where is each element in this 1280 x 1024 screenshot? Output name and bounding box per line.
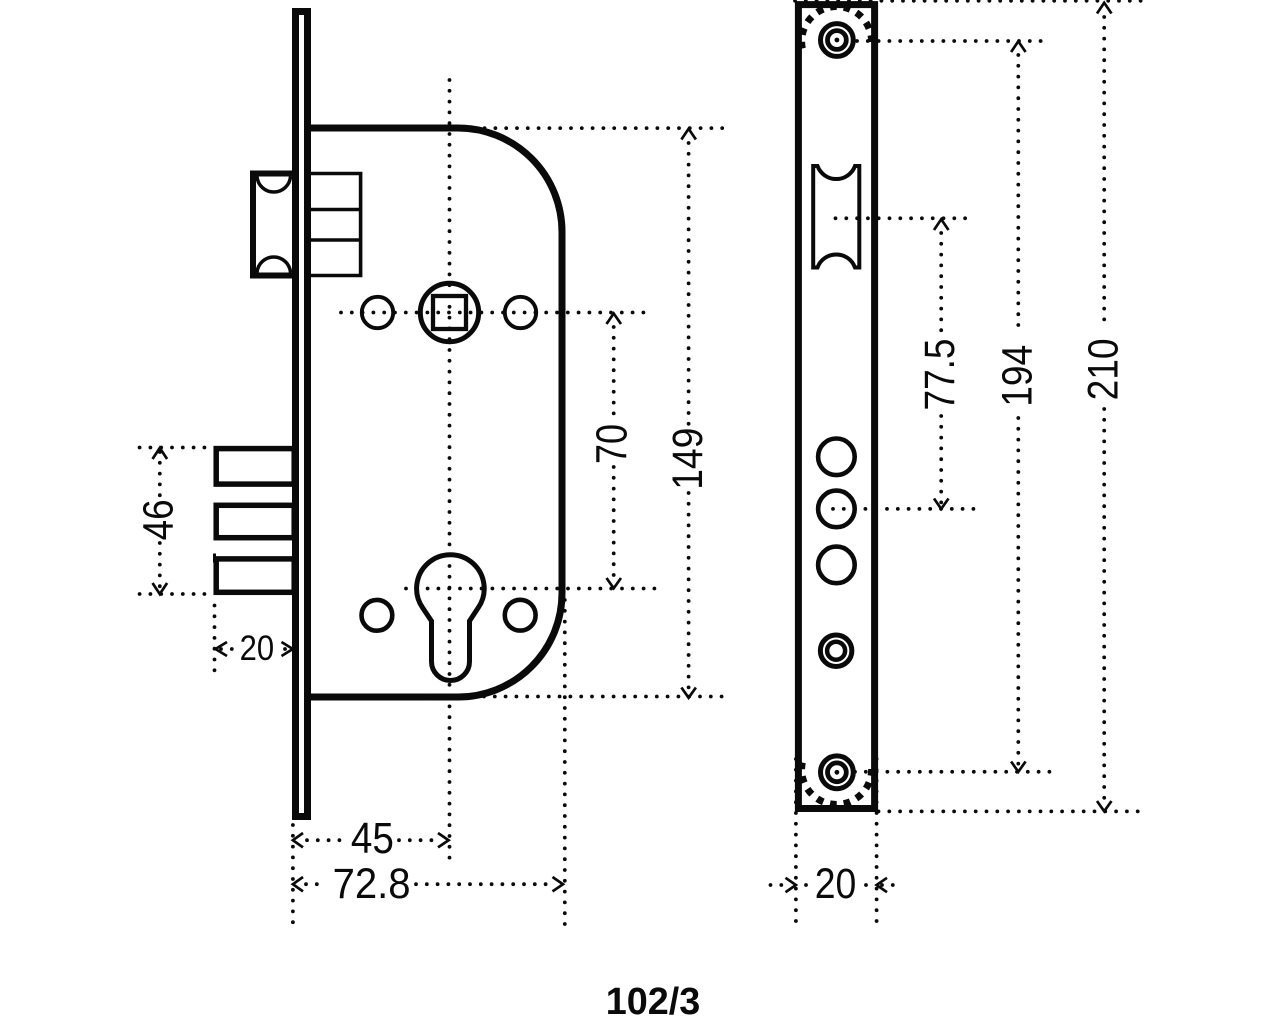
svg-text:20: 20	[815, 861, 857, 908]
dim 72.8 arrows	[293, 877, 563, 891]
screw hole upper-right	[505, 297, 536, 328]
dim 45 extension line	[291, 825, 295, 929]
dim 77.5 line	[939, 233, 943, 333]
dim 70 line	[612, 327, 616, 421]
screw hole lower-left	[362, 600, 393, 631]
dim 77.5 arrows	[934, 219, 949, 509]
deadbolt bar 2	[216, 505, 294, 537]
reference line top screw	[857, 39, 1051, 43]
latch guide box	[311, 174, 361, 276]
svg-text:46: 46	[135, 499, 182, 540]
reference line plate bottom	[879, 810, 1147, 814]
dim 149 bottom reference line	[430, 695, 728, 699]
reference line plate top	[795, 0, 1146, 3]
plate hole 1	[818, 439, 855, 476]
spindle square hole	[433, 296, 466, 329]
dim 20 right extension line left	[794, 759, 798, 924]
dim 72.8 line	[306, 882, 327, 886]
plate hole 3	[818, 547, 855, 584]
top fixing screw	[821, 24, 854, 57]
latch bolt head	[253, 174, 295, 276]
dim 45 arrows	[293, 833, 449, 847]
reference line bottom screw	[855, 770, 1057, 774]
svg-text:194: 194	[995, 345, 1042, 407]
svg-text:102/3: 102/3	[606, 981, 701, 1023]
dim 210 line	[1102, 17, 1106, 330]
latch bolt bevel top arc	[257, 177, 291, 193]
dim 72.8 extension line	[563, 600, 567, 928]
plate hole 2	[818, 491, 855, 528]
dim 149 top reference line	[463, 126, 728, 130]
screw hole upper-left	[362, 297, 393, 328]
deadbolt bar 1	[216, 449, 294, 485]
vertical centerline through spindle	[448, 80, 452, 868]
grub screw hole	[820, 635, 852, 667]
dim 149 arrows	[681, 129, 696, 698]
dim 46 arrows	[153, 448, 168, 594]
svg-text:149: 149	[664, 428, 712, 490]
deadbolt bar 3	[216, 559, 294, 592]
dim 20 left arrows	[216, 642, 293, 656]
faceplate hidden rounded end top (dashed arc)	[802, 7, 872, 49]
dim 70 arrows	[607, 314, 622, 589]
dim 194 line	[1016, 55, 1020, 334]
dim 20 left extension line	[213, 606, 217, 678]
horizontal centerline through spindle	[341, 311, 647, 315]
dim 20 right arrows	[786, 878, 888, 892]
dim 46 bottom reference line	[140, 592, 206, 596]
dim 20 right extension line right	[875, 759, 879, 924]
dim 194 arrows	[1011, 41, 1026, 772]
svg-text:45: 45	[351, 814, 394, 863]
dim 45 line	[307, 838, 345, 842]
reference line hole 2 center	[833, 507, 974, 511]
lock body outline	[311, 128, 562, 697]
screw hole lower-right	[505, 600, 536, 631]
dim 210 arrows	[1097, 3, 1112, 812]
dim 46 line	[158, 452, 162, 497]
reference line latch center	[836, 216, 975, 220]
latch bolt bevel bottom arc	[257, 257, 291, 273]
faceplate hidden rounded end bottom (dashed arc)	[802, 763, 872, 805]
svg-text:20: 20	[240, 629, 275, 668]
latch opening	[813, 166, 859, 268]
dim 20 right line	[771, 883, 791, 887]
svg-text:70: 70	[588, 424, 637, 464]
faceplate side view	[296, 12, 308, 817]
bottom fixing screw	[821, 756, 854, 789]
euro cylinder hole	[417, 555, 485, 681]
horizontal centerline through cylinder	[406, 587, 659, 591]
svg-text:72.8: 72.8	[333, 861, 411, 908]
dim 20 left extension tick	[213, 554, 216, 563]
svg-text:77.5: 77.5	[917, 339, 964, 411]
svg-text:210: 210	[1081, 338, 1128, 400]
spindle hub circle	[420, 283, 478, 341]
dim 46 top reference line	[140, 446, 206, 450]
faceplate front view	[798, 5, 874, 809]
dim 20 left line	[221, 647, 234, 651]
dim 149 line	[687, 143, 691, 424]
